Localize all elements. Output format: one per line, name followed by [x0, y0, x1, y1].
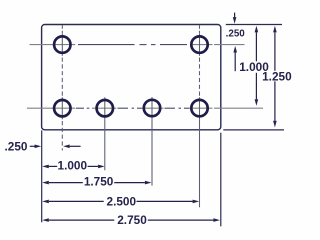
- dimension 2.500 bottom: [42, 200, 199, 204]
- hole H1 top-left: [54, 36, 70, 52]
- centerline column 2: [104, 97, 106, 170]
- hole H4 bottom row 2: [97, 100, 113, 116]
- hole H6 bottom row 4: [191, 100, 207, 116]
- svg-text:1.000: 1.000: [58, 159, 88, 173]
- svg-text:.250: .250: [5, 140, 28, 154]
- extension line right edge: [220, 133, 222, 227]
- plate outline: [42, 25, 221, 130]
- dimension 1.000 bottom: [42, 165, 104, 169]
- svg-text:2.500: 2.500: [107, 194, 137, 208]
- extension line top edge: [226, 24, 282, 26]
- dimension 2.750 bottom: [42, 218, 220, 222]
- dimension .250 right: [233, 13, 237, 72]
- hole H3 bottom row 1: [54, 100, 70, 116]
- centerline row 1: [30, 44, 245, 46]
- centerline column 4: [199, 25, 201, 207]
- svg-text:1.250: 1.250: [262, 69, 292, 83]
- dimension 1.750 bottom: [42, 181, 151, 185]
- extension line bottom edge: [223, 129, 284, 131]
- svg-text:.250: .250: [226, 28, 246, 39]
- centerline column 3: [151, 97, 153, 186]
- hole H5 bottom row 3: [144, 100, 160, 116]
- centerline row 2: [27, 107, 263, 109]
- dimension .250 bottom: [30, 145, 81, 149]
- hole H2 top-right: [191, 36, 207, 52]
- svg-text:2.750: 2.750: [117, 213, 147, 227]
- dimension 1.250 right: [273, 26, 277, 128]
- dimension 1.000 right: [255, 26, 259, 106]
- svg-text:1.750: 1.750: [84, 174, 114, 188]
- extension line left edge: [41, 130, 43, 222]
- centerline column 1: [61, 25, 63, 150]
